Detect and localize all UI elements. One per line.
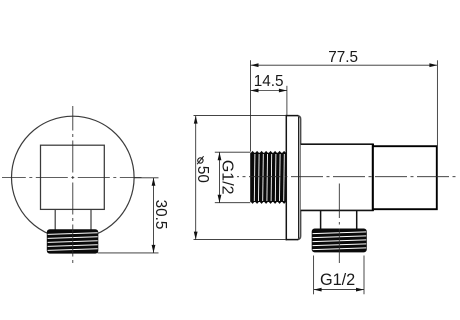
svg-text:30.5: 30.5 xyxy=(152,200,169,230)
svg-text:14.5: 14.5 xyxy=(254,73,284,90)
svg-text:G1/2: G1/2 xyxy=(320,271,355,289)
svg-text:77.5: 77.5 xyxy=(328,49,358,66)
svg-text:G1/2: G1/2 xyxy=(219,160,236,195)
svg-text:50: 50 xyxy=(194,166,211,183)
